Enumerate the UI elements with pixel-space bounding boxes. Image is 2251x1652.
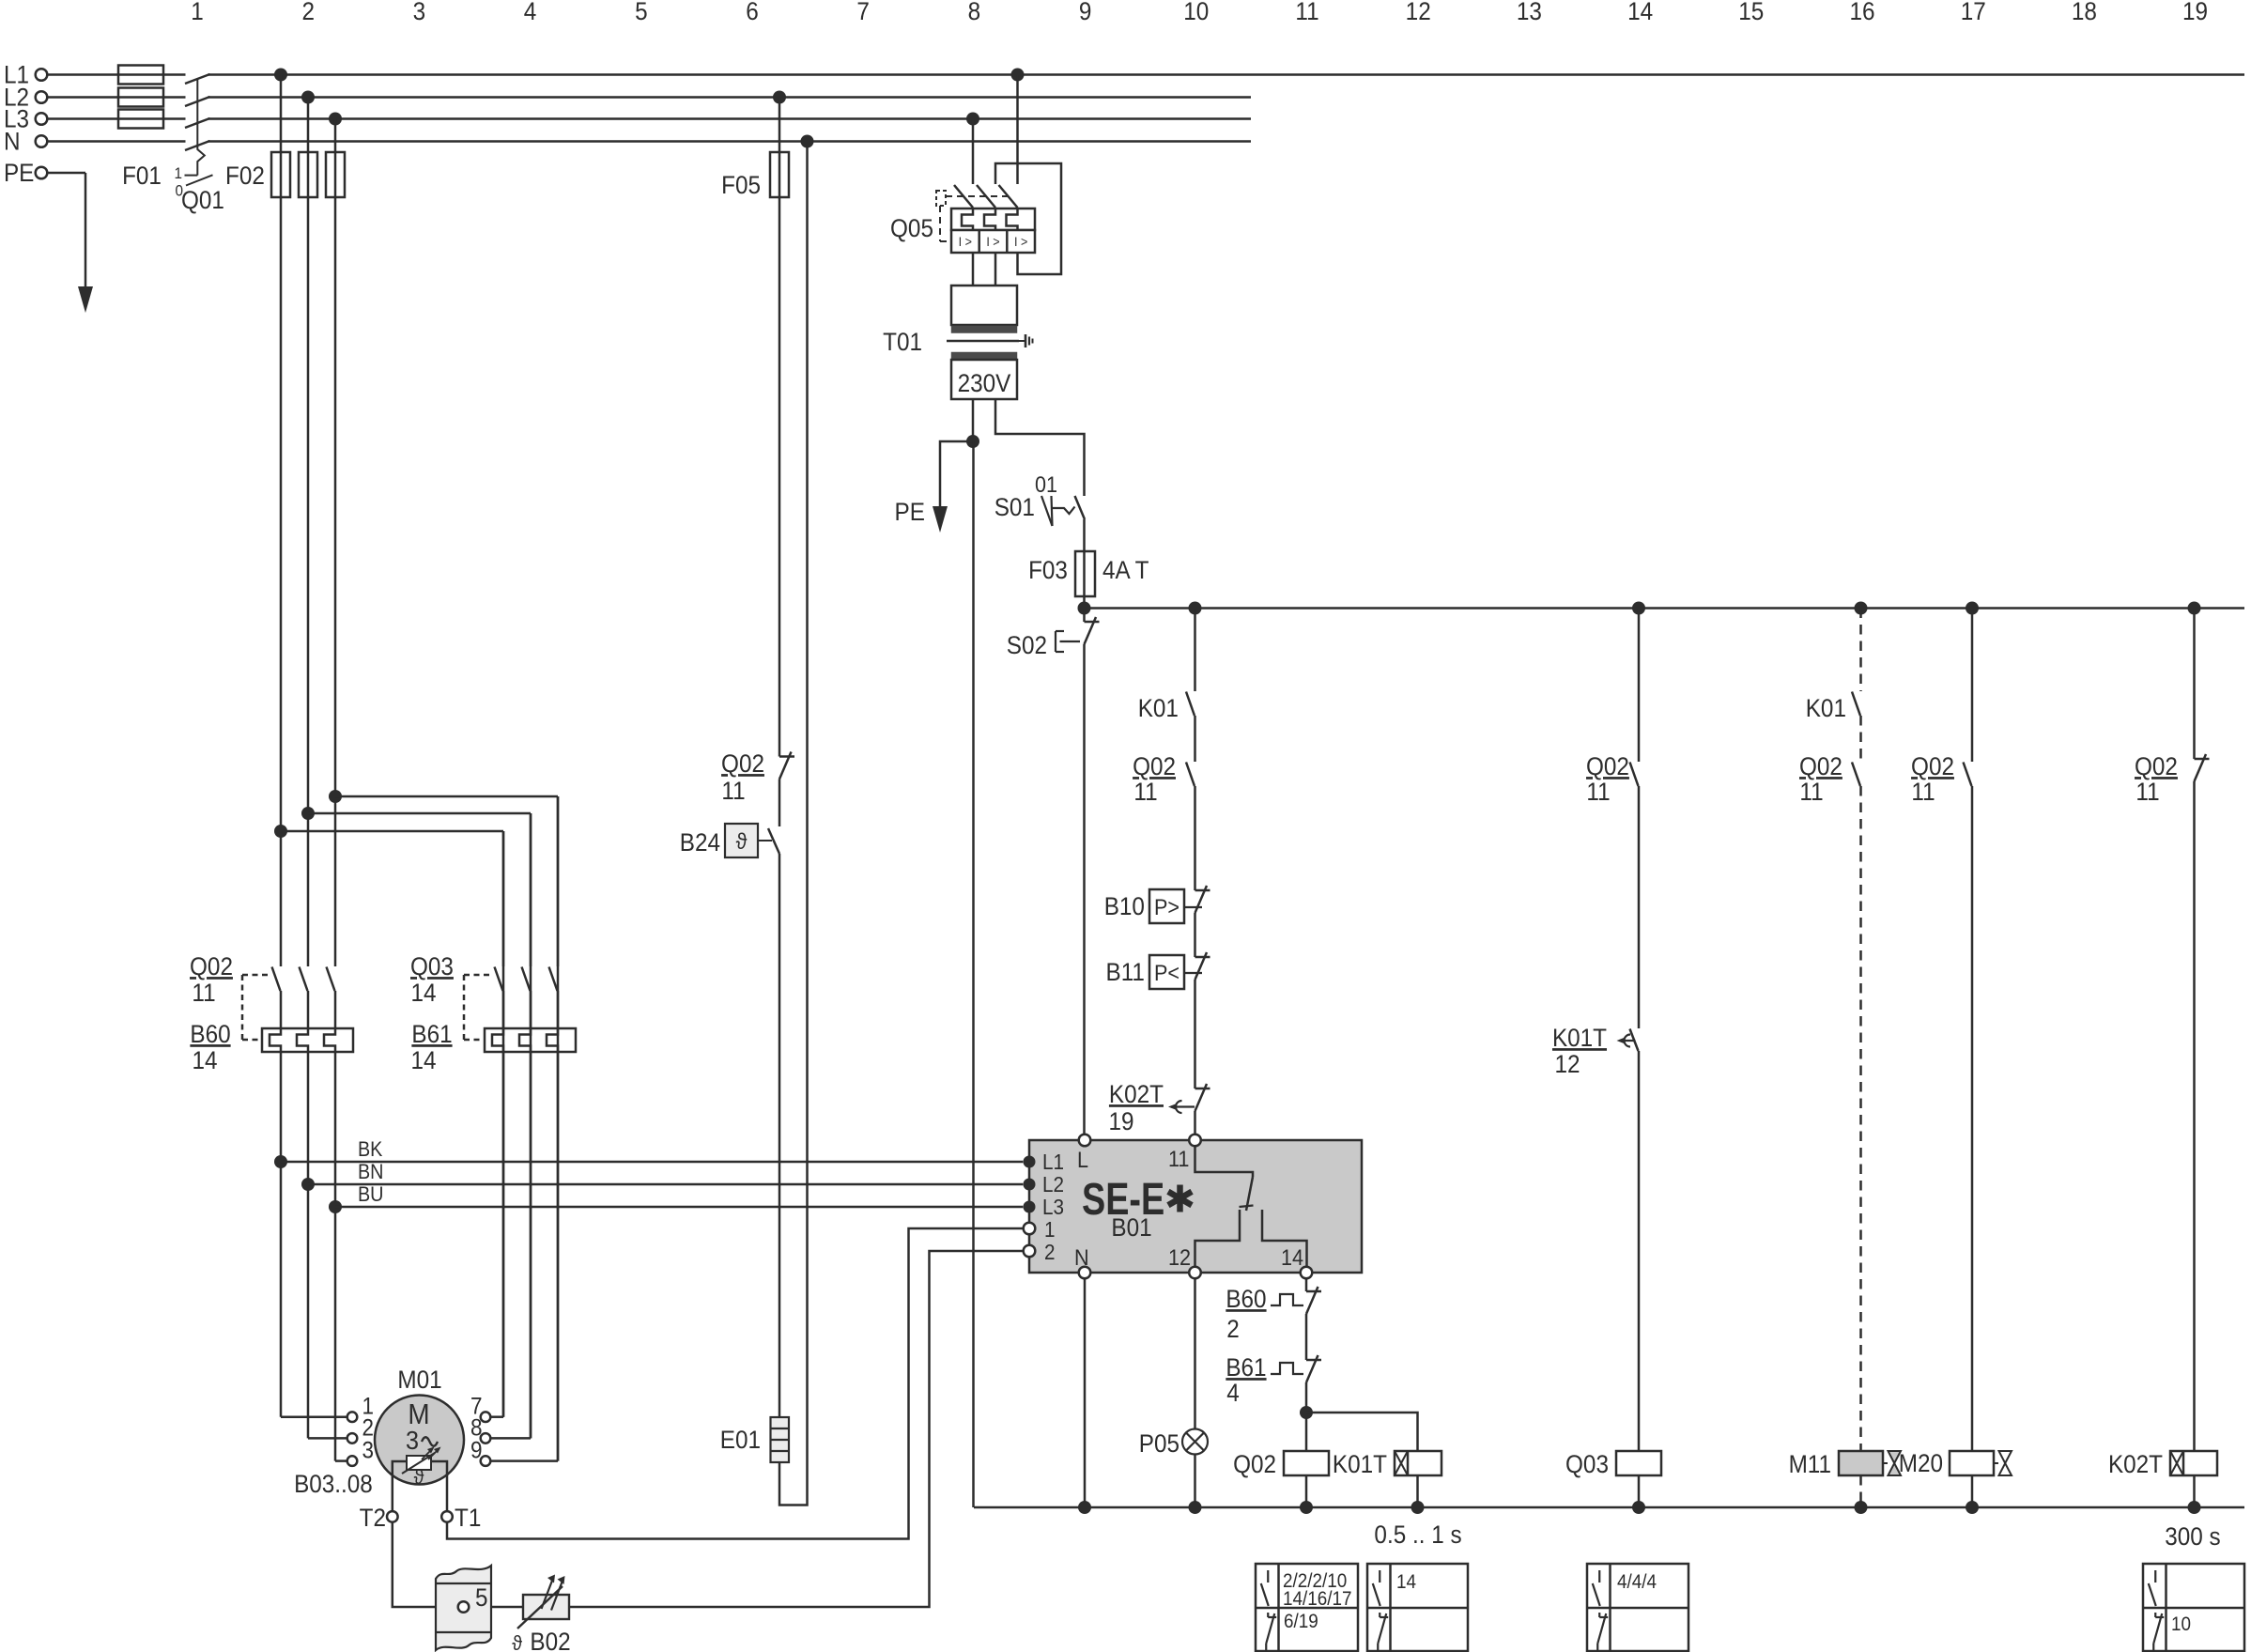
svg-text:ϑ: ϑ — [414, 1466, 424, 1489]
svg-text:K01T: K01T — [1552, 1025, 1607, 1052]
svg-text:K01T: K01T — [1333, 1451, 1387, 1478]
svg-text:11: 11 — [1295, 0, 1318, 25]
svg-text:14: 14 — [1396, 1571, 1416, 1593]
svg-text:PE: PE — [895, 499, 925, 526]
svg-text:16: 16 — [1849, 0, 1874, 25]
svg-text:2: 2 — [1044, 1240, 1056, 1264]
svg-text:L: L — [1077, 1147, 1088, 1172]
svg-text:P05: P05 — [1139, 1430, 1179, 1458]
svg-text:12: 12 — [1406, 0, 1431, 25]
svg-text:Q03: Q03 — [410, 953, 454, 980]
svg-text:Q02: Q02 — [1233, 1451, 1276, 1478]
svg-text:12: 12 — [1554, 1051, 1580, 1078]
svg-text:F03: F03 — [1028, 557, 1068, 584]
svg-text:14/16/17: 14/16/17 — [1283, 1588, 1352, 1610]
svg-text:L1: L1 — [1042, 1150, 1064, 1174]
svg-text:11: 11 — [1133, 779, 1157, 806]
svg-text:3: 3 — [406, 1426, 419, 1456]
svg-text:PE: PE — [4, 160, 34, 187]
svg-text:13: 13 — [1517, 0, 1542, 25]
svg-text:4/4/4: 4/4/4 — [1617, 1571, 1657, 1593]
svg-text:I >: I > — [959, 234, 973, 249]
svg-text:2: 2 — [301, 0, 315, 25]
svg-text:9: 9 — [470, 1438, 483, 1464]
svg-text:N: N — [1074, 1244, 1089, 1270]
svg-text:Q02: Q02 — [2135, 753, 2178, 780]
svg-text:11: 11 — [1586, 779, 1610, 806]
svg-text:Q02: Q02 — [1799, 753, 1842, 780]
svg-text:Q02: Q02 — [1133, 753, 1176, 780]
svg-text:2: 2 — [1226, 1316, 1240, 1343]
svg-text:Q01: Q01 — [181, 187, 224, 214]
svg-text:B60: B60 — [1226, 1286, 1266, 1313]
svg-text:14: 14 — [1281, 1244, 1303, 1270]
svg-text:B60: B60 — [190, 1021, 230, 1048]
svg-text:18: 18 — [2072, 0, 2097, 25]
svg-text:Q02: Q02 — [1586, 753, 1629, 780]
svg-text:5: 5 — [635, 0, 648, 25]
svg-text:K01: K01 — [1138, 695, 1179, 722]
svg-text:F05: F05 — [721, 172, 761, 199]
svg-text:10: 10 — [1183, 0, 1209, 25]
svg-text:14: 14 — [410, 980, 436, 1007]
svg-text:B61: B61 — [1226, 1354, 1266, 1382]
svg-text:11: 11 — [192, 980, 215, 1007]
svg-text:I >: I > — [986, 234, 1000, 249]
svg-text:BU: BU — [358, 1183, 383, 1206]
svg-text:4: 4 — [1226, 1380, 1240, 1407]
svg-text:14: 14 — [192, 1047, 217, 1074]
svg-text:K02T: K02T — [1109, 1081, 1164, 1108]
svg-text:T01: T01 — [883, 329, 922, 356]
svg-text:11: 11 — [1168, 1146, 1189, 1171]
svg-text:230V: 230V — [958, 370, 1012, 397]
svg-text:Q05: Q05 — [890, 215, 933, 242]
svg-text:L2: L2 — [1042, 1172, 1064, 1197]
svg-text:6/19: 6/19 — [1284, 1611, 1318, 1632]
svg-text:ϑ: ϑ — [512, 1632, 522, 1652]
svg-text:M01: M01 — [397, 1366, 441, 1394]
svg-text:10: 10 — [2171, 1613, 2191, 1635]
svg-text:F01: F01 — [122, 162, 162, 190]
svg-text:M20: M20 — [1899, 1450, 1943, 1477]
svg-text:P<: P< — [1154, 960, 1179, 985]
svg-text:1: 1 — [191, 0, 204, 25]
svg-text:B03..08: B03..08 — [294, 1471, 373, 1498]
svg-text:19: 19 — [1109, 1108, 1134, 1135]
svg-text:8: 8 — [968, 0, 981, 25]
svg-text:1: 1 — [175, 164, 183, 182]
svg-text:B24: B24 — [680, 829, 720, 857]
svg-text:F02: F02 — [225, 162, 265, 190]
svg-text:BN: BN — [358, 1161, 383, 1183]
svg-text:11: 11 — [1911, 779, 1935, 806]
svg-text:3: 3 — [362, 1438, 374, 1464]
svg-text:S01: S01 — [994, 494, 1035, 521]
svg-text:M11: M11 — [1789, 1451, 1831, 1478]
svg-text:B10: B10 — [1104, 893, 1145, 920]
svg-text:Q03: Q03 — [1565, 1451, 1609, 1478]
svg-text:K01: K01 — [1806, 695, 1846, 722]
svg-text:E01: E01 — [720, 1427, 761, 1454]
svg-text:12: 12 — [1168, 1244, 1191, 1270]
svg-text:6: 6 — [746, 0, 759, 25]
svg-text:T1: T1 — [455, 1505, 481, 1532]
svg-text:3: 3 — [413, 0, 426, 25]
svg-text:17: 17 — [1961, 0, 1986, 25]
svg-text:B61: B61 — [411, 1021, 452, 1048]
svg-text:14: 14 — [1627, 0, 1653, 25]
svg-text:300 s: 300 s — [2165, 1523, 2220, 1551]
svg-text:11: 11 — [721, 778, 745, 805]
svg-text:0.5 .. 1 s: 0.5 .. 1 s — [1374, 1521, 1461, 1549]
svg-text:4: 4 — [524, 0, 537, 25]
svg-text:Q02: Q02 — [190, 953, 233, 980]
svg-text:ϑ: ϑ — [736, 828, 748, 854]
svg-text:P>: P> — [1154, 894, 1179, 919]
svg-text:Q02: Q02 — [1911, 753, 1954, 780]
svg-text:B11: B11 — [1106, 959, 1145, 986]
svg-text:B02: B02 — [530, 1629, 570, 1652]
svg-text:S02: S02 — [1007, 632, 1047, 659]
svg-text:K02T: K02T — [2108, 1451, 2163, 1478]
svg-text:5: 5 — [475, 1584, 488, 1612]
svg-text:19: 19 — [2182, 0, 2208, 25]
svg-text:BK: BK — [358, 1138, 382, 1161]
svg-text:1: 1 — [1044, 1217, 1056, 1242]
svg-text:N: N — [4, 128, 21, 155]
svg-text:9: 9 — [1079, 0, 1092, 25]
svg-text:L3: L3 — [1042, 1195, 1064, 1219]
svg-text:01: 01 — [1035, 471, 1057, 497]
svg-text:11: 11 — [2135, 779, 2159, 806]
svg-text:T2: T2 — [360, 1505, 386, 1532]
svg-text:11: 11 — [1799, 779, 1823, 806]
svg-text:Q02: Q02 — [721, 750, 764, 778]
svg-text:14: 14 — [410, 1047, 436, 1074]
svg-text:4A T: 4A T — [1102, 557, 1149, 584]
svg-text:15: 15 — [1738, 0, 1764, 25]
svg-text:I >: I > — [1014, 234, 1028, 249]
svg-text:B01: B01 — [1111, 1214, 1151, 1242]
svg-text:7: 7 — [856, 0, 870, 25]
